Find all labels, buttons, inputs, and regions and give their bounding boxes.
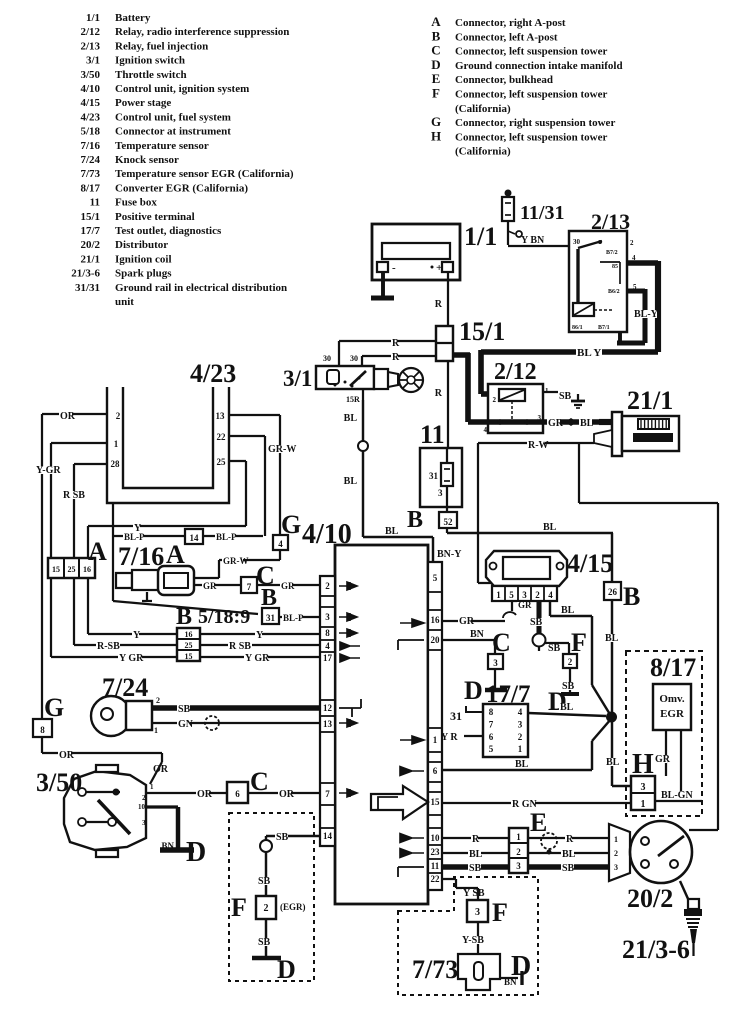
wire Y-SB to sensor: [461, 922, 485, 955]
node C 6 box: [227, 782, 248, 803]
svg-text:A: A: [88, 537, 107, 566]
svg-text:Knock sensor: Knock sensor: [115, 154, 179, 166]
svg-text:OR: OR: [197, 789, 213, 800]
svg-text:17/7: 17/7: [80, 225, 100, 237]
svg-text:2: 2: [535, 590, 540, 600]
svg-text:2: 2: [325, 581, 330, 591]
svg-text:B7/1: B7/1: [598, 325, 610, 331]
svg-text:OR: OR: [59, 750, 75, 761]
svg-text:13: 13: [323, 719, 333, 729]
svg-text:1: 1: [150, 783, 154, 791]
svg-text:Temperature sensor: Temperature sensor: [115, 140, 209, 152]
wire BL pin6 to node: [442, 719, 611, 770]
svg-text:22: 22: [217, 432, 227, 442]
svg-text:1: 1: [518, 744, 523, 754]
wire SB E to distributor: [528, 863, 609, 874]
svg-text:3/1: 3/1: [283, 366, 312, 391]
svg-text:2: 2: [518, 732, 523, 742]
svg-text:1: 1: [433, 735, 438, 745]
svg-text:(EGR): (EGR): [280, 902, 306, 912]
svg-text:3: 3: [493, 658, 498, 668]
svg-text:1: 1: [614, 835, 618, 844]
svg-text:11: 11: [431, 861, 440, 871]
svg-text:SB: SB: [469, 863, 482, 874]
svg-text:3: 3: [516, 861, 521, 871]
svg-text:1: 1: [114, 439, 119, 449]
wire BN-Y to pin 5: [432, 545, 434, 562]
arrow pin 23: [400, 849, 424, 858]
svg-text:SB: SB: [178, 704, 191, 715]
svg-text:B: B: [623, 582, 640, 611]
svg-text:15R: 15R: [346, 395, 360, 404]
wire R-SB from 4/23 pin28: [62, 464, 107, 645]
svg-text:SB: SB: [258, 876, 271, 887]
svg-text:Y-GR: Y-GR: [36, 465, 61, 476]
arrow pin 6: [400, 767, 424, 776]
svg-text:R SB: R SB: [63, 490, 85, 501]
wire BL from ignition switch: [344, 400, 463, 562]
svg-text:Y: Y: [256, 630, 264, 641]
wire OR from 4/23 pin2: [42, 411, 107, 719]
svg-text:Distributor: Distributor: [115, 239, 168, 251]
svg-text:4/15: 4/15: [567, 549, 613, 578]
wire BL-P from 4/23 pin22: [229, 436, 265, 536]
svg-text:R: R: [472, 834, 480, 845]
legend component list: [71, 12, 294, 308]
svg-text:F: F: [492, 898, 508, 927]
wire GR BL to ignition coil: [468, 418, 600, 429]
svg-text:3/1: 3/1: [86, 55, 100, 67]
svg-text:OR: OR: [279, 789, 295, 800]
svg-text:1/1: 1/1: [86, 12, 100, 24]
test outlet 17/7: [483, 704, 528, 757]
svg-text:E: E: [432, 71, 441, 86]
svg-text:3: 3: [518, 719, 523, 729]
arrow pin 3: [339, 613, 357, 621]
svg-text:Connector, right suspension to: Connector, right suspension tower: [455, 117, 615, 129]
EGR dashed box F: [229, 813, 314, 981]
arrow pin 1: [400, 736, 424, 744]
4/10 right pin strip: [428, 562, 442, 890]
svg-text:BL-GN: BL-GN: [661, 790, 693, 801]
svg-text:15: 15: [431, 797, 441, 807]
svg-text:3: 3: [522, 590, 527, 600]
svg-text:3: 3: [641, 782, 646, 793]
svg-text:R: R: [392, 352, 400, 363]
svg-text:Temperature sensor EGR (Califo: Temperature sensor EGR (California): [115, 168, 294, 180]
node 14 box: [185, 529, 203, 544]
svg-text:52: 52: [444, 517, 454, 527]
svg-text:Relay, fuel injection: Relay, fuel injection: [115, 40, 208, 52]
svg-text:BL-P: BL-P: [216, 532, 237, 542]
svg-text:Y: Y: [133, 630, 141, 641]
svg-text:R: R: [392, 338, 400, 349]
legend connector list: [431, 14, 623, 158]
svg-text:20: 20: [431, 635, 441, 645]
svg-text:BL: BL: [344, 476, 358, 487]
svg-text:3: 3: [325, 612, 330, 622]
svg-text:7/24: 7/24: [102, 673, 148, 702]
svg-text:4/10: 4/10: [80, 83, 100, 95]
wire Y-BN: [508, 235, 569, 246]
wire R-W: [478, 440, 594, 587]
svg-text:GN: GN: [178, 719, 194, 730]
wire GN knock sensor to pin13: [152, 716, 321, 730]
wire BN sensor ground: [500, 971, 522, 987]
svg-text:B6/2: B6/2: [608, 289, 620, 295]
svg-text:2: 2: [614, 849, 618, 858]
svg-text:21/1: 21/1: [627, 386, 673, 415]
svg-text:SB: SB: [258, 937, 271, 948]
svg-text:Y GR: Y GR: [119, 653, 144, 664]
wire R pin10 to E: [442, 834, 509, 845]
big arrow pin 15: [371, 786, 428, 819]
svg-text:7/24: 7/24: [80, 154, 100, 166]
temperature sensor 7/16: [116, 566, 194, 601]
node B 26 box: [604, 582, 621, 600]
svg-text:30: 30: [350, 354, 358, 363]
svg-text:Ground connection intake manif: Ground connection intake manifold: [455, 60, 623, 72]
wire SB pin11 to E: [442, 863, 509, 874]
wire GR-W to sensor: [194, 550, 280, 578]
svg-text:85: 85: [612, 264, 618, 270]
svg-text:D: D: [277, 955, 296, 984]
fuse box 11: [420, 448, 462, 507]
svg-text:Relay, radio interference supp: Relay, radio interference suppression: [115, 26, 289, 38]
wire BL down to H: [604, 600, 631, 786]
connector B 16-25-15: [177, 628, 200, 661]
svg-text:BN-Y: BN-Y: [437, 549, 462, 560]
svg-text:+: +: [436, 262, 442, 274]
svg-text:Ignition switch: Ignition switch: [115, 55, 185, 67]
arrow pin 2: [339, 582, 357, 590]
svg-text:GR: GR: [459, 616, 475, 627]
svg-text:5/18: 5/18: [80, 126, 100, 138]
svg-text:Connector, left suspension tow: Connector, left suspension tower: [455, 131, 607, 143]
battery 1/1: [372, 224, 460, 280]
wire Y SB pin22: [442, 879, 486, 900]
wire Y GR row: [51, 653, 321, 664]
sensor 7/73 dashed box: [398, 877, 538, 995]
svg-text:Ground rail in electrical dist: Ground rail in electrical distribution: [115, 282, 287, 294]
svg-text:B: B: [261, 585, 277, 611]
svg-text:3: 3: [614, 863, 618, 872]
svg-text:5/18:9: 5/18:9: [198, 606, 250, 628]
svg-text:8: 8: [489, 707, 494, 717]
svg-text:BL: BL: [606, 757, 620, 768]
svg-text:BL: BL: [560, 702, 574, 713]
wire BL to power stage area: [447, 522, 613, 582]
svg-text:2: 2: [142, 794, 146, 802]
svg-text:4: 4: [325, 641, 330, 651]
svg-text:Connector, right A-post: Connector, right A-post: [455, 17, 566, 29]
svg-text:BL: BL: [543, 522, 557, 533]
svg-text:7/16: 7/16: [118, 542, 164, 571]
svg-text:30: 30: [573, 238, 581, 246]
svg-text:R-SB: R-SB: [97, 641, 120, 652]
svg-text:C: C: [431, 43, 440, 58]
svg-text:16: 16: [185, 630, 193, 639]
svg-text:Throttle switch: Throttle switch: [115, 69, 187, 81]
svg-text:7/73: 7/73: [80, 168, 100, 180]
arrow pin 17: [340, 654, 360, 662]
control unit 4/23: [107, 387, 229, 503]
svg-text:5: 5: [489, 744, 494, 754]
svg-text:BL: BL: [562, 849, 576, 860]
wire BL 4/15 pin4: [550, 601, 611, 716]
svg-text:2: 2: [156, 696, 160, 705]
svg-text:6: 6: [489, 732, 494, 742]
svg-text:30: 30: [323, 354, 331, 363]
svg-text:2/13: 2/13: [80, 40, 100, 52]
node C 3 box: [488, 654, 503, 669]
svg-text:2: 2: [568, 657, 573, 667]
arrow pin 16: [400, 619, 424, 627]
svg-text:5: 5: [509, 590, 514, 600]
svg-text:4: 4: [484, 426, 488, 434]
svg-text:25: 25: [68, 565, 76, 574]
wire OR to connector C 6: [146, 789, 321, 800]
throttle switch 3/50: [64, 765, 154, 857]
svg-text:SB: SB: [548, 643, 561, 654]
svg-text:21/3-6: 21/3-6: [622, 935, 690, 964]
svg-text:unit: unit: [115, 296, 134, 308]
svg-text:R: R: [435, 299, 443, 310]
svg-text:Battery: Battery: [115, 12, 151, 24]
wire SB pin14 to EGR valve: [257, 832, 321, 896]
svg-text:3/50: 3/50: [80, 69, 100, 81]
svg-text:15: 15: [52, 565, 60, 574]
svg-text:OR: OR: [153, 764, 169, 775]
node B 31 box: [262, 608, 279, 624]
svg-text:8/17: 8/17: [650, 653, 696, 682]
hook pin 12: [339, 699, 361, 717]
svg-text:G: G: [44, 693, 64, 722]
node junction BL: [606, 712, 617, 723]
svg-text:BL-P: BL-P: [124, 532, 145, 542]
svg-text:6: 6: [235, 789, 240, 799]
svg-text:3: 3: [475, 907, 480, 918]
node G 4 box: [273, 535, 288, 550]
svg-text:15: 15: [185, 652, 193, 661]
svg-text:7/16: 7/16: [80, 140, 100, 152]
svg-text:2: 2: [630, 239, 634, 247]
svg-text:D: D: [186, 837, 206, 868]
node F 2 EGR box: [256, 896, 276, 919]
wire SB knock sensor to pin12: [152, 704, 321, 715]
wire GR from sensor: [194, 581, 321, 591]
svg-text:BL Y: BL Y: [577, 347, 601, 359]
svg-text:4/15: 4/15: [80, 97, 100, 109]
svg-text:B7/2: B7/2: [606, 250, 618, 256]
svg-text:3/50: 3/50: [36, 768, 82, 797]
wire BL 17/7 to node: [528, 702, 606, 716]
svg-text:16: 16: [431, 615, 441, 625]
svg-text:GR: GR: [203, 581, 217, 591]
svg-text:SB: SB: [562, 863, 575, 874]
svg-text:16: 16: [83, 565, 91, 574]
svg-text:G: G: [431, 114, 441, 129]
control unit 4/10 box: [335, 545, 428, 904]
svg-text:25: 25: [217, 457, 227, 467]
svg-text:28: 28: [111, 459, 121, 469]
arrow pin 10: [400, 834, 424, 843]
wire to ground D C3: [485, 669, 507, 690]
svg-text:(California): (California): [455, 103, 511, 115]
svg-text:3: 3: [142, 819, 146, 827]
svg-text:2: 2: [264, 903, 269, 914]
svg-text:2/12: 2/12: [494, 359, 537, 385]
svg-text:Control unit, fuel system: Control unit, fuel system: [115, 111, 231, 123]
wire Y R test outlet: [441, 732, 483, 743]
svg-text:GR-W: GR-W: [268, 444, 296, 455]
wire EGR right leg: [680, 730, 682, 799]
svg-text:1: 1: [496, 590, 501, 600]
svg-text:GR: GR: [655, 754, 671, 765]
svg-text:GR-W: GR-W: [223, 556, 249, 566]
svg-text:Connector, left suspension tow: Connector, left suspension tower: [455, 89, 607, 101]
svg-text:7: 7: [247, 582, 252, 592]
svg-text:R-W: R-W: [528, 440, 549, 451]
svg-text:G: G: [281, 510, 301, 539]
svg-text:Connector, bulkhead: Connector, bulkhead: [455, 74, 553, 86]
svg-text:4/23: 4/23: [80, 111, 100, 123]
connector E: [509, 828, 528, 873]
svg-text:Y SB: Y SB: [463, 888, 485, 899]
svg-text:BL: BL: [580, 418, 594, 429]
svg-text:10: 10: [431, 833, 441, 843]
svg-text:F: F: [432, 86, 440, 101]
svg-text:20/2: 20/2: [627, 884, 673, 913]
svg-text:5: 5: [433, 573, 438, 583]
svg-text:Y-SB: Y-SB: [462, 935, 484, 946]
svg-text:20/2: 20/2: [80, 239, 100, 251]
svg-text:SB: SB: [276, 832, 289, 843]
arrow pin 7: [339, 789, 357, 797]
svg-text:31: 31: [429, 471, 439, 481]
wire BN throttle ground: [146, 807, 194, 851]
wire BL-P row: [113, 503, 263, 601]
svg-text:8: 8: [325, 628, 330, 638]
svg-text:2: 2: [116, 411, 121, 421]
battery ground: [371, 272, 394, 298]
svg-text:C: C: [250, 767, 269, 796]
svg-text:15/1: 15/1: [459, 317, 505, 346]
wire GR 4/15 pin3: [517, 600, 532, 610]
connector A 15-25-16: [48, 558, 95, 578]
svg-text:8: 8: [40, 725, 45, 735]
node G 8 box: [33, 719, 52, 737]
svg-text:Fuse box: Fuse box: [115, 197, 157, 209]
svg-text:2: 2: [493, 396, 497, 404]
arrow pin 13: [339, 719, 357, 727]
svg-text:Y R: Y R: [441, 732, 458, 743]
svg-text:BL: BL: [561, 605, 575, 616]
wire coil to distributor: [579, 443, 718, 830]
svg-text:1: 1: [516, 832, 521, 842]
svg-text:Test outlet, diagnostics: Test outlet, diagnostics: [115, 225, 222, 237]
wire BL-Y from relay 2/13: [617, 261, 659, 352]
svg-text:R SB: R SB: [229, 641, 251, 652]
wire Y row: [88, 630, 321, 641]
svg-text:15/1: 15/1: [80, 211, 100, 223]
svg-text:C: C: [492, 628, 511, 657]
svg-text:F: F: [571, 628, 587, 657]
svg-text:BL: BL: [344, 413, 358, 424]
hook pin 11: [398, 867, 424, 877]
svg-text:F: F: [231, 893, 247, 922]
svg-text:Connector at instrument: Connector at instrument: [115, 126, 231, 138]
svg-text:Ignition coil: Ignition coil: [115, 253, 172, 265]
fuse 11/31: [502, 190, 522, 246]
relay 2/13 U2: [569, 231, 637, 332]
svg-text:6: 6: [433, 766, 438, 776]
hook pin 20: [398, 640, 424, 650]
wire Y from 4/23 pin25: [88, 461, 246, 634]
svg-text:Converter EGR (California): Converter EGR (California): [115, 182, 248, 194]
svg-text:4: 4: [518, 707, 523, 717]
wire GR-W from 4/23 pin13: [229, 415, 296, 535]
svg-text:26: 26: [608, 587, 618, 597]
wire SB to ground D: [561, 668, 579, 694]
wire R to ignition switch: [339, 338, 436, 366]
label 31 test outlet: [450, 706, 483, 723]
node F 2 box: [563, 654, 577, 668]
svg-text:EGR: EGR: [660, 708, 685, 720]
wire OR to throttle switch: [42, 737, 169, 784]
connector H box: [631, 776, 655, 810]
svg-text:Positive terminal: Positive terminal: [115, 211, 195, 223]
svg-text:22: 22: [431, 874, 441, 884]
svg-text:86/1: 86/1: [572, 325, 583, 331]
Omv EGR box: [653, 684, 691, 730]
svg-text:R: R: [566, 834, 574, 845]
svg-text:4/23: 4/23: [190, 359, 236, 388]
arrow pin 4: [340, 642, 360, 650]
wire SB 4/15 pin2: [529, 601, 569, 654]
4/10 left pin strip: [320, 576, 335, 846]
wire GR EGR: [654, 730, 671, 776]
svg-text:1: 1: [641, 799, 646, 810]
wire BL pin23 to E: [442, 849, 509, 860]
svg-text:BL-Y: BL-Y: [634, 309, 659, 320]
svg-text:Control unit, ignition system: Control unit, ignition system: [115, 83, 249, 95]
relay 2/12: [484, 384, 550, 434]
svg-text:7/73: 7/73: [412, 955, 458, 984]
distributor 20/2: [630, 821, 692, 883]
wire battery positive R: [435, 272, 448, 326]
svg-text:31: 31: [266, 613, 276, 623]
svg-text:OR: OR: [60, 411, 76, 422]
svg-text:14: 14: [190, 533, 200, 543]
svg-text:A: A: [431, 14, 441, 29]
svg-text:21/3-6: 21/3-6: [71, 268, 100, 280]
svg-text:B: B: [432, 28, 441, 43]
svg-text:BL: BL: [385, 526, 399, 537]
wire R to fuse box: [447, 361, 449, 448]
svg-text:BL: BL: [515, 759, 529, 770]
svg-text:D: D: [431, 57, 440, 72]
svg-text:7: 7: [325, 789, 330, 799]
svg-text:(California): (California): [455, 146, 511, 158]
svg-text:8/17: 8/17: [80, 182, 100, 194]
svg-text:4/10: 4/10: [302, 519, 352, 550]
temperature sensor 7/73: [458, 954, 500, 990]
svg-text:1/1: 1/1: [464, 222, 497, 251]
wire Y-GR from 4/23 pin1: [35, 443, 107, 657]
svg-text:2/12: 2/12: [80, 26, 100, 38]
wire distributor to spark plug: [680, 881, 689, 901]
